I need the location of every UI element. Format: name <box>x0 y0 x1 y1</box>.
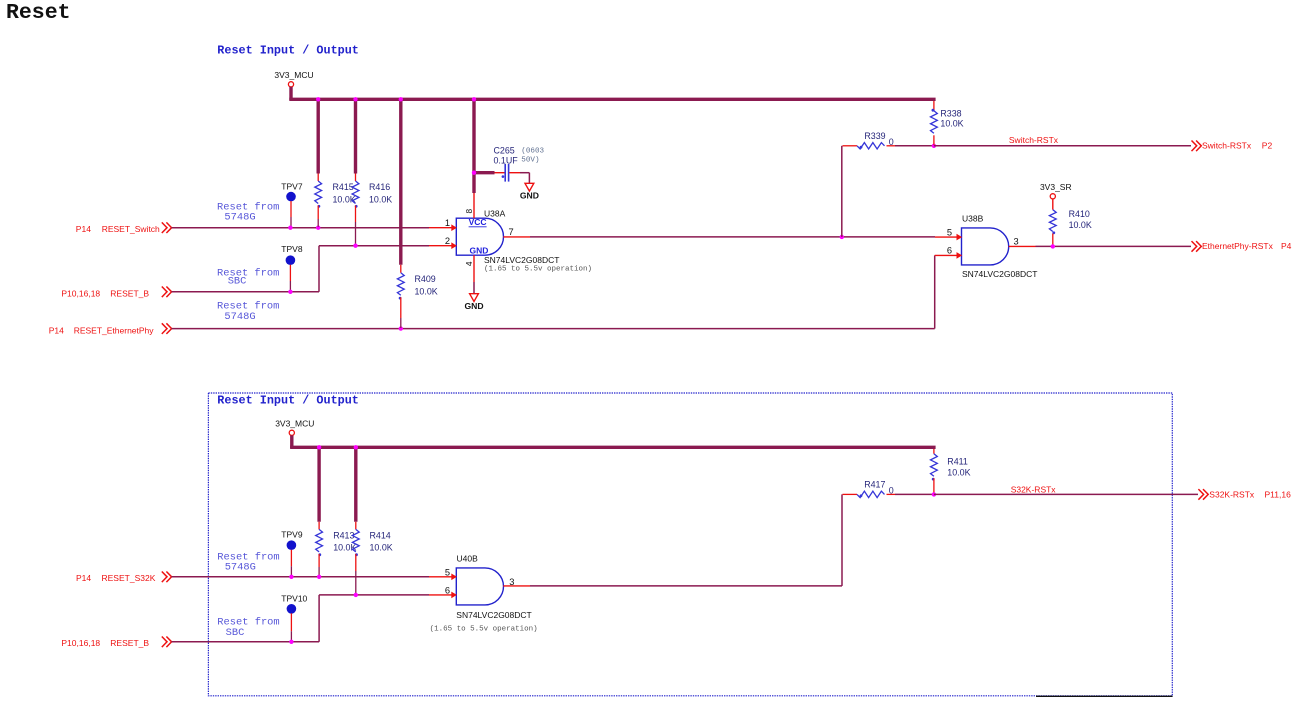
junction R339 branch <box>840 235 844 239</box>
junction TPV8/RESET_B <box>288 290 292 294</box>
wire R417 left lead <box>843 493 858 495</box>
svg-text:6: 6 <box>947 246 952 256</box>
svg-text:S32K-RSTx: S32K-RSTx <box>1011 484 1057 494</box>
power symbol 3V3_SR <box>1040 182 1072 210</box>
resistor R411 <box>931 454 938 476</box>
svg-text:3V3_MCU: 3V3_MCU <box>274 70 313 80</box>
svg-text:R415: R415 <box>333 182 354 192</box>
svg-text:GND: GND <box>464 301 483 311</box>
svg-text:S32K-RSTx: S32K-RSTx <box>1209 489 1255 499</box>
resistor R415 <box>315 181 322 204</box>
off-page connector RESET_Switch <box>162 222 172 233</box>
resistor R417 <box>857 491 885 497</box>
off-page connector Switch-RSTx out <box>1192 141 1202 152</box>
svg-text:P14: P14 <box>76 573 91 583</box>
svg-text:R417: R417 <box>864 479 885 489</box>
wire pin2 red lead <box>429 245 452 247</box>
wire pin3 output red lead (U40B) <box>503 585 530 587</box>
svg-text:R338: R338 <box>940 108 961 118</box>
wire RESET_EthernetPhy vertical to U38B pin6 <box>934 255 936 328</box>
wire R339 right lead <box>887 145 896 147</box>
wire R338 top lead <box>933 101 935 111</box>
wire bus stub to R413 <box>317 447 320 522</box>
svg-text:3V3_SR: 3V3_SR <box>1040 182 1072 192</box>
wire RESET_B vertical to pin6 row <box>318 595 320 642</box>
svg-text:P4: P4 <box>1281 241 1292 251</box>
svg-text:P10,16,18: P10,16,18 <box>61 638 100 648</box>
svg-text:SN74LVC2G08DCT: SN74LVC2G08DCT <box>962 269 1037 279</box>
svg-text:6: 6 <box>445 585 450 595</box>
pin dot R413 <box>318 553 321 556</box>
svg-text:R414: R414 <box>370 530 391 540</box>
svg-text:SN74LVC2G08DCT: SN74LVC2G08DCT <box>484 255 559 265</box>
test point TPV7 <box>281 181 303 227</box>
junction R409/RESET_EthernetPhy <box>399 326 403 330</box>
svg-text:RESET_S32K: RESET_S32K <box>102 573 156 583</box>
svg-text:Switch-RSTx: Switch-RSTx <box>1202 141 1252 151</box>
wire R410 bottom lead <box>1052 234 1054 247</box>
wire pin5 red lead (U40B) <box>429 576 452 578</box>
junction bus/R413 <box>317 445 321 449</box>
svg-text:Reset Input / Output: Reset Input / Output <box>217 393 359 407</box>
svg-text:1: 1 <box>445 218 450 228</box>
svg-text:0: 0 <box>889 137 894 147</box>
resistor R414 <box>352 529 359 552</box>
wire pin5 red lead <box>935 236 957 238</box>
wire R416 top lead <box>355 174 357 182</box>
dashed section border box <box>208 393 1172 696</box>
off-page connector RESET_B <box>162 287 172 298</box>
svg-text:3V3_MCU: 3V3_MCU <box>275 418 314 428</box>
svg-text:10.0K: 10.0K <box>369 195 392 205</box>
junction stub/C265 tee <box>472 171 476 175</box>
svg-text:GND: GND <box>520 191 539 201</box>
junction R338/Switch-RSTx <box>932 144 936 148</box>
pin dot R416 <box>355 205 358 208</box>
wire net EthernetPhy-RSTx <box>1036 245 1192 247</box>
wire R415 top lead <box>317 174 319 182</box>
svg-text:R411: R411 <box>947 456 968 466</box>
junction R413/RESET_S32K <box>317 575 321 579</box>
resistor R338 <box>931 111 938 133</box>
svg-text:7: 7 <box>509 227 514 237</box>
ground GND under U38A pin4 <box>464 294 483 311</box>
junction R416/pin2 row <box>353 244 357 248</box>
pin dot R415 <box>318 205 321 208</box>
wire C265 to GND <box>520 172 529 174</box>
wire vertical to R417 <box>841 494 843 586</box>
svg-text:U38A: U38A <box>484 208 506 218</box>
svg-text:10.0K: 10.0K <box>940 119 963 129</box>
svg-text:TPV9: TPV9 <box>281 529 303 539</box>
svg-text:EthernetPhy-RSTx: EthernetPhy-RSTx <box>1202 241 1274 251</box>
resistor R339 <box>857 143 885 149</box>
wire net RESET_B <box>172 291 320 293</box>
wire pin2 row <box>319 245 429 247</box>
wire R413 top lead <box>318 522 320 530</box>
junction bus/pin8 stub <box>472 97 476 101</box>
wire net RESET_Switch <box>172 227 430 229</box>
pin dot R339 <box>860 146 863 149</box>
pin dot R414 <box>355 553 358 556</box>
svg-text:U40B: U40B <box>457 553 479 563</box>
svg-text:Reset: Reset <box>6 1 71 25</box>
wire R413 bottom lead <box>318 554 320 567</box>
svg-text:SN74LVC2G08DCT: SN74LVC2G08DCT <box>456 610 531 620</box>
op-amp U38B AND gate SN74LVC2G08 <box>962 228 1009 265</box>
off-page connector RESET_S32K <box>162 572 172 583</box>
wire bus stub to R415 <box>317 99 320 173</box>
wire U38A out to U38B pin5 <box>530 236 935 238</box>
junction TPV7/RESET_Switch <box>288 226 292 230</box>
junction TPV10/RESET_B <box>289 640 293 644</box>
junction bus/R409 <box>399 97 403 101</box>
svg-text:Switch-RSTx: Switch-RSTx <box>1009 135 1059 145</box>
wire R339 left lead <box>843 145 858 147</box>
op-amp U40B AND gate SN74LVC2G08 <box>456 568 503 605</box>
junction R415/RESET_Switch <box>316 226 320 230</box>
wire pin4 GND lead <box>473 255 475 282</box>
svg-text:(1.65 to 5.5v operation): (1.65 to 5.5v operation) <box>430 626 538 634</box>
wire R411 top lead <box>933 449 935 454</box>
pin dot R338 <box>932 109 935 112</box>
svg-text:R409: R409 <box>415 274 436 284</box>
junction bus/R415 <box>316 97 320 101</box>
wire net S32K-RSTx <box>934 493 1198 495</box>
svg-text:R416: R416 <box>369 182 390 192</box>
wire R409 top lead <box>400 265 402 273</box>
svg-text:RESET_B: RESET_B <box>110 289 149 299</box>
wire bus stub to R414 <box>354 447 357 522</box>
wire pin6 red lead (U40B) <box>429 594 452 596</box>
svg-text:U38B: U38B <box>962 214 984 224</box>
svg-text:C265: C265 <box>494 145 515 155</box>
junction R411/S32K-RSTx <box>932 492 936 496</box>
svg-text:P14: P14 <box>76 224 91 234</box>
svg-text:TPV7: TPV7 <box>281 181 303 191</box>
wire pin6 row (bottom) <box>319 594 429 596</box>
svg-text:TPV8: TPV8 <box>281 244 303 254</box>
wire R338 bottom lead <box>933 135 935 145</box>
wire U40B out run <box>530 585 842 587</box>
wire R411 bottom lead <box>933 478 935 494</box>
svg-text:P10,16,18: P10,16,18 <box>61 289 100 299</box>
sheet border black line segment <box>1036 695 1173 697</box>
wire RESET_B vertical to pin2 row <box>318 246 320 292</box>
svg-text:SBC: SBC <box>228 276 247 288</box>
svg-text:VCC: VCC <box>469 217 487 227</box>
power symbol 3V3_MCU (bottom) <box>275 418 314 448</box>
wire pin1 red lead <box>429 227 452 229</box>
svg-text:5: 5 <box>947 227 952 237</box>
off-page connector RESET_EthernetPhy <box>162 323 172 334</box>
wire net RESET_EthernetPhy <box>172 328 935 330</box>
svg-text:TPV10: TPV10 <box>281 594 307 604</box>
svg-text:5748G: 5748G <box>224 311 255 323</box>
svg-text:P11,16: P11,16 <box>1265 489 1292 499</box>
wire pin8 VCC lead <box>473 193 475 218</box>
off-page connector EthernetPhy-RSTx out <box>1192 241 1202 252</box>
pin dot R410 <box>1052 231 1055 234</box>
wire pin7 output red lead <box>503 236 530 238</box>
svg-text:8: 8 <box>464 209 474 214</box>
wire bus stub to R416 <box>354 99 357 173</box>
svg-text:5: 5 <box>445 567 450 577</box>
wire R415 bottom lead <box>317 206 319 220</box>
svg-text:SBC: SBC <box>226 627 245 639</box>
svg-text:(1.65 to 5.5v operation): (1.65 to 5.5v operation) <box>484 266 592 274</box>
svg-text:Reset Input / Output: Reset Input / Output <box>217 43 359 57</box>
test point TPV9 <box>281 529 303 576</box>
ground GND under C265 <box>520 183 539 200</box>
wire pin3 output red lead <box>1009 245 1036 247</box>
wire 3V3_MCU power bus (top) <box>289 98 935 101</box>
power symbol 3V3_MCU (top) <box>274 70 313 100</box>
wire net RESET_S32K <box>172 576 430 578</box>
capacitor C265 <box>495 164 521 182</box>
svg-text:RESET_EthernetPhy: RESET_EthernetPhy <box>74 326 155 336</box>
svg-text:P2: P2 <box>1262 141 1273 151</box>
wire net RESET_B (bottom) <box>172 641 320 643</box>
pin dot R417 <box>860 494 863 497</box>
svg-text:2: 2 <box>445 236 450 246</box>
svg-text:R339: R339 <box>864 131 885 141</box>
junction bus/R414 <box>354 445 358 449</box>
wire R416 bottom lead <box>355 206 357 223</box>
resistor R416 <box>352 181 359 204</box>
pin dot R411 <box>932 478 935 481</box>
junction TPV9/RESET_S32K <box>289 575 293 579</box>
junction R414/pin6 row <box>354 593 358 597</box>
wire net Switch-RSTx <box>934 145 1191 147</box>
op-amp U38A AND gate SN74LVC2G08 <box>456 218 503 255</box>
svg-text:R410: R410 <box>1069 209 1090 219</box>
svg-text:10.0K: 10.0K <box>1069 220 1092 230</box>
svg-text:0.1UF: 0.1UF <box>494 155 519 165</box>
svg-text:5748G: 5748G <box>224 212 255 224</box>
wire bus stub to C265 <box>474 171 495 174</box>
wire R409 bottom lead <box>400 297 402 318</box>
svg-text:10.0K: 10.0K <box>333 542 356 552</box>
junction bus/R416 <box>353 97 357 101</box>
svg-text:50V): 50V) <box>521 157 539 165</box>
svg-text:Reset from: Reset from <box>217 267 279 279</box>
svg-text:RESET_Switch: RESET_Switch <box>102 224 160 234</box>
svg-text:10.0K: 10.0K <box>333 195 356 205</box>
wire bus stub to U38A VCC pin 8 <box>472 99 475 193</box>
junction R410/EthernetPhy-RSTx <box>1051 244 1055 248</box>
resistor R410 <box>1049 210 1056 232</box>
wire R414 bottom lead <box>355 554 357 571</box>
test point TPV10 <box>281 594 307 642</box>
svg-text:3: 3 <box>1014 237 1019 247</box>
wire R414 top lead <box>355 522 357 530</box>
svg-text:RESET_B: RESET_B <box>110 638 149 648</box>
wire pin6 red lead <box>935 254 957 256</box>
svg-text:P14: P14 <box>49 326 64 336</box>
resistor R413 <box>316 529 323 552</box>
svg-text:10.0K: 10.0K <box>370 542 393 552</box>
wire 3V3_MCU power bus (bottom) <box>290 446 936 449</box>
svg-text:10.0K: 10.0K <box>415 287 438 297</box>
resistor R409 <box>397 273 404 295</box>
off-page connector RESET_B bottom <box>162 637 172 648</box>
svg-text:10.0K: 10.0K <box>947 468 970 478</box>
wire vertical to R339 <box>841 146 843 237</box>
svg-text:4: 4 <box>464 261 474 266</box>
wire R417 to R411 node <box>895 493 934 495</box>
off-page connector S32K-RSTx out <box>1198 489 1208 500</box>
svg-text:(0603: (0603 <box>521 148 544 156</box>
wire bus stub to R409 <box>399 99 402 264</box>
wire R339 to R338 node <box>895 145 934 147</box>
pin dot R409 <box>399 297 402 300</box>
wire R417 right lead <box>887 493 896 495</box>
test point TPV8 <box>281 244 303 291</box>
svg-text:5748G: 5748G <box>225 562 256 574</box>
svg-text:0: 0 <box>889 485 894 495</box>
